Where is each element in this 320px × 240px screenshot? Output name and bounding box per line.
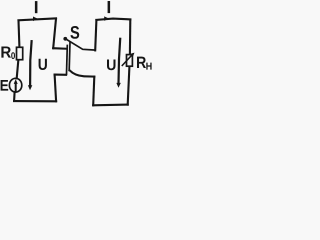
wire: R0 to EMF source (17, 61, 19, 79)
label RH - subscript H (146, 63, 151, 70)
wire: left loop lower-right side (55, 75, 57, 102)
voltage arrow U shaft (left loop) (30, 41, 32, 86)
wire: left loop top (19, 18, 57, 20)
label I (left loop current) (35, 1, 38, 13)
resistor R0 box (17, 47, 23, 59)
current arrowhead on left loop top wire (33, 17, 38, 22)
voltage arrow U shaft (right loop) (119, 39, 121, 84)
wire: right loop right side upper (129, 20, 132, 54)
EMF source E circle (9, 78, 21, 92)
wire: left loop bottom (14, 100, 56, 102)
rheostat arrowhead (pointing up-right) (131, 53, 135, 57)
wire: right loop top (96, 19, 130, 20)
label I (right loop current) (108, 1, 111, 13)
label U (right loop voltage) (107, 60, 116, 71)
parallel line element: right conductor (68, 42, 71, 70)
wire: lower horizontal to parallel-line element (55, 74, 67, 76)
wire: right loop upper-left side (95, 20, 96, 50)
wire: left loop upper-right side (53, 19, 56, 49)
wire: curve from right conductor to right loop (70, 70, 95, 76)
label U (left loop voltage) (39, 59, 47, 70)
wire: left loop upper-left side (17, 21, 20, 47)
wire: right loop lower-left side (93, 77, 94, 106)
label E (EMF) (1, 80, 9, 91)
label RH - R (137, 57, 146, 68)
voltage arrowhead (left loop, pointing down) (28, 85, 32, 90)
EMF internal arrow shaft (15, 83, 17, 91)
wire: right loop right side lower (128, 67, 130, 105)
rheostat RH box (127, 55, 133, 67)
rheostat RH diagonal arrow shaft (122, 54, 132, 65)
label R0 - R (1, 47, 11, 58)
switch S blade (67, 40, 95, 51)
parallel line element: left conductor (66, 46, 69, 75)
voltage arrowhead (right loop, pointing down) (116, 83, 120, 88)
switch S pivot dot (63, 37, 67, 41)
label R0 - subscript 0 (11, 52, 15, 59)
EMF internal arrowhead (pointing up) (14, 79, 18, 84)
wire: stub from left loop to parallel-line element (53, 47, 65, 50)
wire: right loop bottom (93, 104, 128, 107)
label S (switch) (70, 26, 79, 39)
wire: EMF to bottom (13, 92, 16, 101)
current arrowhead on right loop top wire (104, 16, 109, 20)
